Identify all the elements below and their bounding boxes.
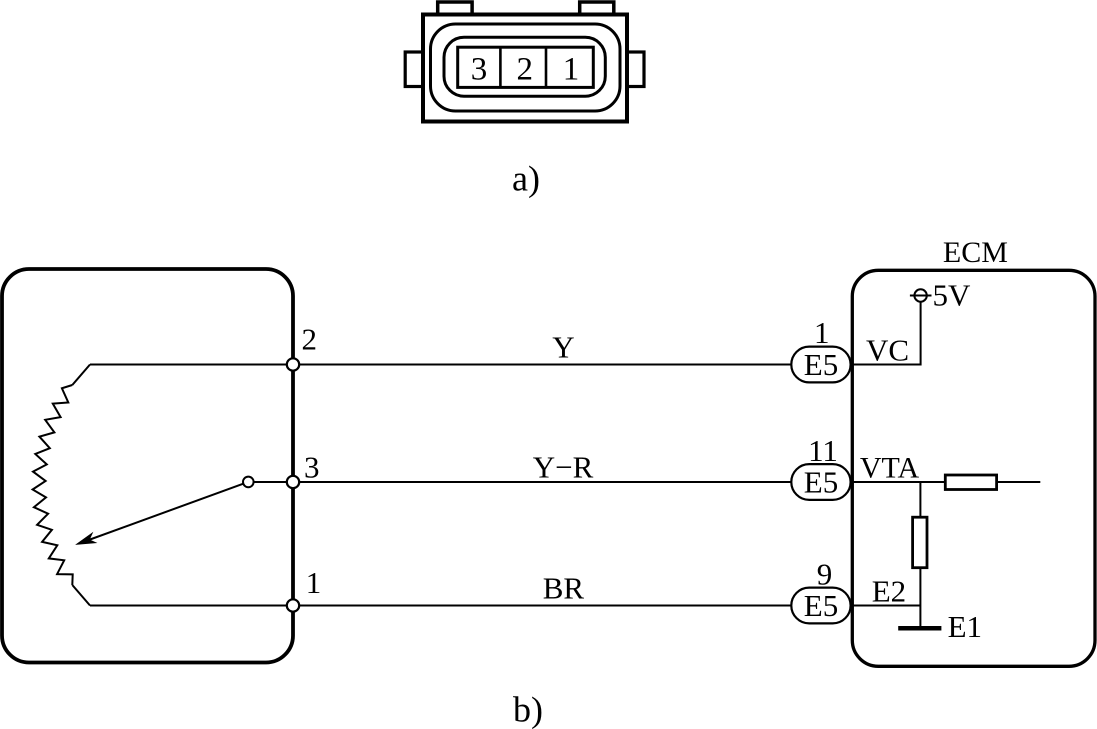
- svg-text:Y−R: Y−R: [533, 450, 594, 485]
- node 2: [287, 358, 299, 370]
- svg-text:E5: E5: [804, 347, 838, 382]
- pull-down resistor (vertical): [913, 517, 927, 568]
- svg-text:ECM: ECM: [943, 236, 1008, 269]
- wire BR (pin1 to E2 net): [90, 605, 920, 607]
- wire Y (pin2 to VC, with 5V riser): [90, 302, 921, 365]
- potentiometer resistive track (zigzag): [33, 385, 73, 585]
- connector seal ring outer: [431, 24, 621, 111]
- series resistor (horizontal): [945, 475, 996, 490]
- svg-text:5V: 5V: [933, 278, 972, 313]
- svg-text:a): a): [512, 159, 540, 199]
- svg-text:9: 9: [817, 557, 833, 592]
- svg-text:b): b): [513, 690, 543, 729]
- pin divider 2: [545, 47, 548, 87]
- svg-text:E2: E2: [872, 574, 906, 609]
- svg-text:3: 3: [304, 450, 320, 485]
- 5V terminal stub: [910, 295, 932, 297]
- svg-text:E5: E5: [804, 464, 838, 499]
- 5V terminal circle: [914, 289, 926, 301]
- connector oval E5 pin 9: [791, 588, 850, 624]
- svg-text:E1: E1: [948, 609, 982, 644]
- connector housing side tab right: [625, 52, 644, 87]
- connector housing top tab left: [438, 2, 472, 18]
- wiper arrow: [79, 484, 243, 544]
- svg-text:2: 2: [302, 322, 318, 357]
- node 3: [287, 476, 299, 488]
- wiper contact circle: [243, 477, 254, 488]
- svg-text:3: 3: [471, 52, 488, 88]
- svg-text:1: 1: [306, 565, 322, 600]
- svg-text:VC: VC: [866, 332, 909, 367]
- connector seal ring inner: [444, 37, 605, 96]
- connector housing side tab left: [405, 52, 425, 87]
- svg-text:Y: Y: [552, 329, 574, 364]
- svg-text:VTA: VTA: [860, 452, 920, 485]
- wire bottom diagonal from resistor: [72, 585, 90, 606]
- connector housing top tab right: [580, 2, 614, 18]
- svg-text:1: 1: [814, 315, 830, 350]
- VTA pull-down branch wire: [919, 482, 921, 628]
- connector outer housing: [423, 15, 627, 122]
- sensor box: [2, 269, 293, 663]
- pin block: [458, 47, 594, 87]
- connector oval E5 pin 11: [791, 464, 850, 500]
- svg-text:E5: E5: [804, 588, 838, 623]
- node 1: [287, 599, 299, 611]
- wire top diagonal to resistor: [72, 365, 90, 386]
- svg-text:11: 11: [808, 433, 838, 468]
- wire Y-R (wiper to VTA): [254, 481, 1041, 483]
- ECM box: [852, 270, 1095, 666]
- ground E1 bar: [898, 626, 941, 631]
- svg-text:2: 2: [517, 52, 534, 88]
- svg-text:BR: BR: [543, 571, 585, 606]
- pin divider 1: [499, 47, 502, 87]
- svg-text:1: 1: [563, 52, 580, 88]
- connector oval E5 pin 1: [791, 347, 850, 383]
